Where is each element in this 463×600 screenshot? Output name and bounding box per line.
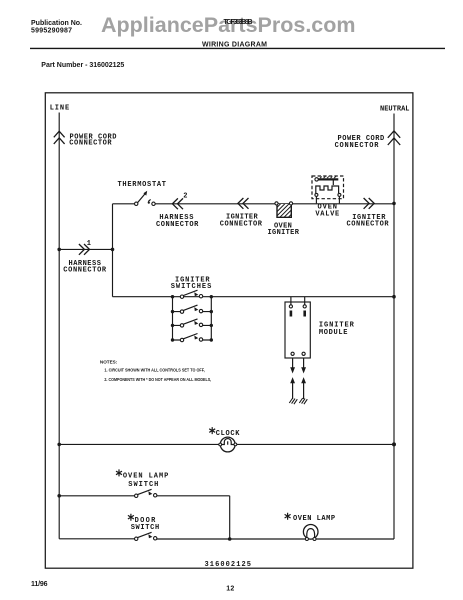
svg-text:1. CIRCUIT SHOWN WITH ALL CONT: 1. CIRCUIT SHOWN WITH ALL CONTROLS SET T… [104, 368, 204, 373]
svg-text:CONNECTOR: CONNECTOR [220, 221, 263, 229]
svg-text:CONNECTOR: CONNECTOR [335, 142, 380, 150]
svg-text:2: 2 [183, 193, 187, 201]
svg-text:5995290987: 5995290987 [31, 28, 72, 35]
svg-text:2. COMPONENTS WITH * DO NOT AP: 2. COMPONENTS WITH * DO NOT APPEAR ON AL… [104, 377, 211, 382]
svg-text:MODULE: MODULE [319, 329, 348, 337]
svg-text:12: 12 [226, 586, 234, 593]
svg-text:TGF353B8B: TGF353B8B [224, 19, 253, 26]
svg-text:OVEN LAMP: OVEN LAMP [293, 515, 335, 523]
svg-text:OVEN LAMP: OVEN LAMP [123, 473, 168, 481]
svg-text:SWITCH: SWITCH [128, 481, 158, 489]
svg-text:NOTES:: NOTES: [100, 359, 118, 364]
svg-text:VALVE: VALVE [315, 211, 339, 219]
svg-text:THERMOSTAT: THERMOSTAT [118, 181, 167, 189]
svg-text:LINE: LINE [50, 104, 69, 112]
svg-text:CONNECTOR: CONNECTOR [69, 139, 112, 147]
svg-text:Publication No.: Publication No. [31, 20, 82, 27]
svg-text:SWITCH: SWITCH [131, 524, 160, 532]
svg-text:CONNECTOR: CONNECTOR [347, 220, 390, 228]
svg-text:WIRING DIAGRAM: WIRING DIAGRAM [202, 41, 267, 48]
svg-text:11/96: 11/96 [31, 581, 48, 588]
svg-text:Part Number - 316002125: Part Number - 316002125 [41, 62, 124, 69]
svg-text:316002125: 316002125 [205, 561, 252, 569]
svg-text:1: 1 [87, 240, 91, 248]
svg-text:CONNECTOR: CONNECTOR [156, 221, 199, 229]
svg-text:NEUTRAL: NEUTRAL [380, 105, 410, 113]
svg-text:IGNITER: IGNITER [268, 229, 300, 237]
svg-text:SWITCHES: SWITCHES [171, 283, 212, 291]
svg-text:CONNECTOR: CONNECTOR [63, 266, 107, 274]
